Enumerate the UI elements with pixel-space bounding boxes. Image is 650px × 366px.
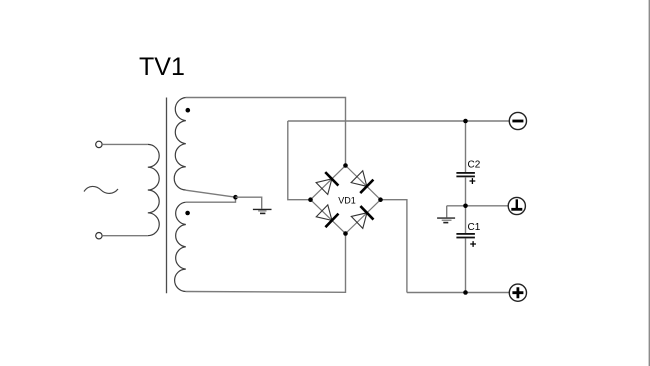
terminal plus [509,284,526,301]
wire filter rail vertical C2 top [465,121,467,172]
node center tap junction dot [233,195,238,200]
wire minus rail to minus terminal [288,120,510,122]
wire bridge right node to plus rail [381,200,407,293]
node junction dot minus rail [463,119,468,124]
primary terminal bottom (circle) [96,233,102,239]
diode VD1-4 (bottom node to right node) [339,193,387,240]
primary winding of TV1 [148,144,159,235]
svg-text:TV1: TV1 [139,53,185,81]
svg-text:C1: C1 [468,222,481,233]
primary terminal top (circle) [96,141,102,147]
polarity dot secondary bottom [185,211,190,216]
wire secondary top lower end to center tap [186,190,236,197]
wire secondary top to bridge top [186,98,346,164]
diode VD1-1 (left node to top node) [304,159,352,207]
wire C2 bottom to mid rail [465,177,467,206]
AC tilde symbol [84,186,118,193]
node junction dot mid rail [463,204,468,209]
capacitor C2 [456,160,480,185]
node bridge left dot [308,197,313,202]
diode VD1-2 (top node to right node) [339,159,387,207]
node bridge top dot [343,163,348,168]
wire secondary bottom to bridge bottom [186,236,346,293]
ground (center tap) [253,209,272,213]
capacitor C1 [456,222,480,247]
wire C1 bottom to plus rail [465,238,467,292]
wire secondary bottom upper end to center tap [186,197,236,202]
node bridge bottom dot [343,231,348,236]
transformer core [166,98,168,294]
wire bridge left node to minus rail [288,121,311,200]
ground (filter mid) [437,206,455,223]
terminal mid (chassis) [508,197,525,214]
svg-text:C2: C2 [468,160,481,171]
wire plus rail to plus terminal [407,292,509,294]
polarity dot secondary top [186,108,191,113]
wire center tap to ground [236,197,262,209]
secondary winding bottom [175,202,186,291]
secondary winding top [174,98,186,191]
svg-text:VD1: VD1 [338,196,356,206]
terminal minus [509,112,526,129]
node junction dot plus rail [463,290,468,295]
wire primary top lead [102,143,148,145]
wire mid rail to C1 top [465,206,467,233]
wire mid rail to mid terminal [447,205,509,207]
diode VD1-3 (left node to bottom node) [304,193,352,240]
node bridge right dot [378,197,383,202]
wire primary bottom lead [102,235,148,237]
